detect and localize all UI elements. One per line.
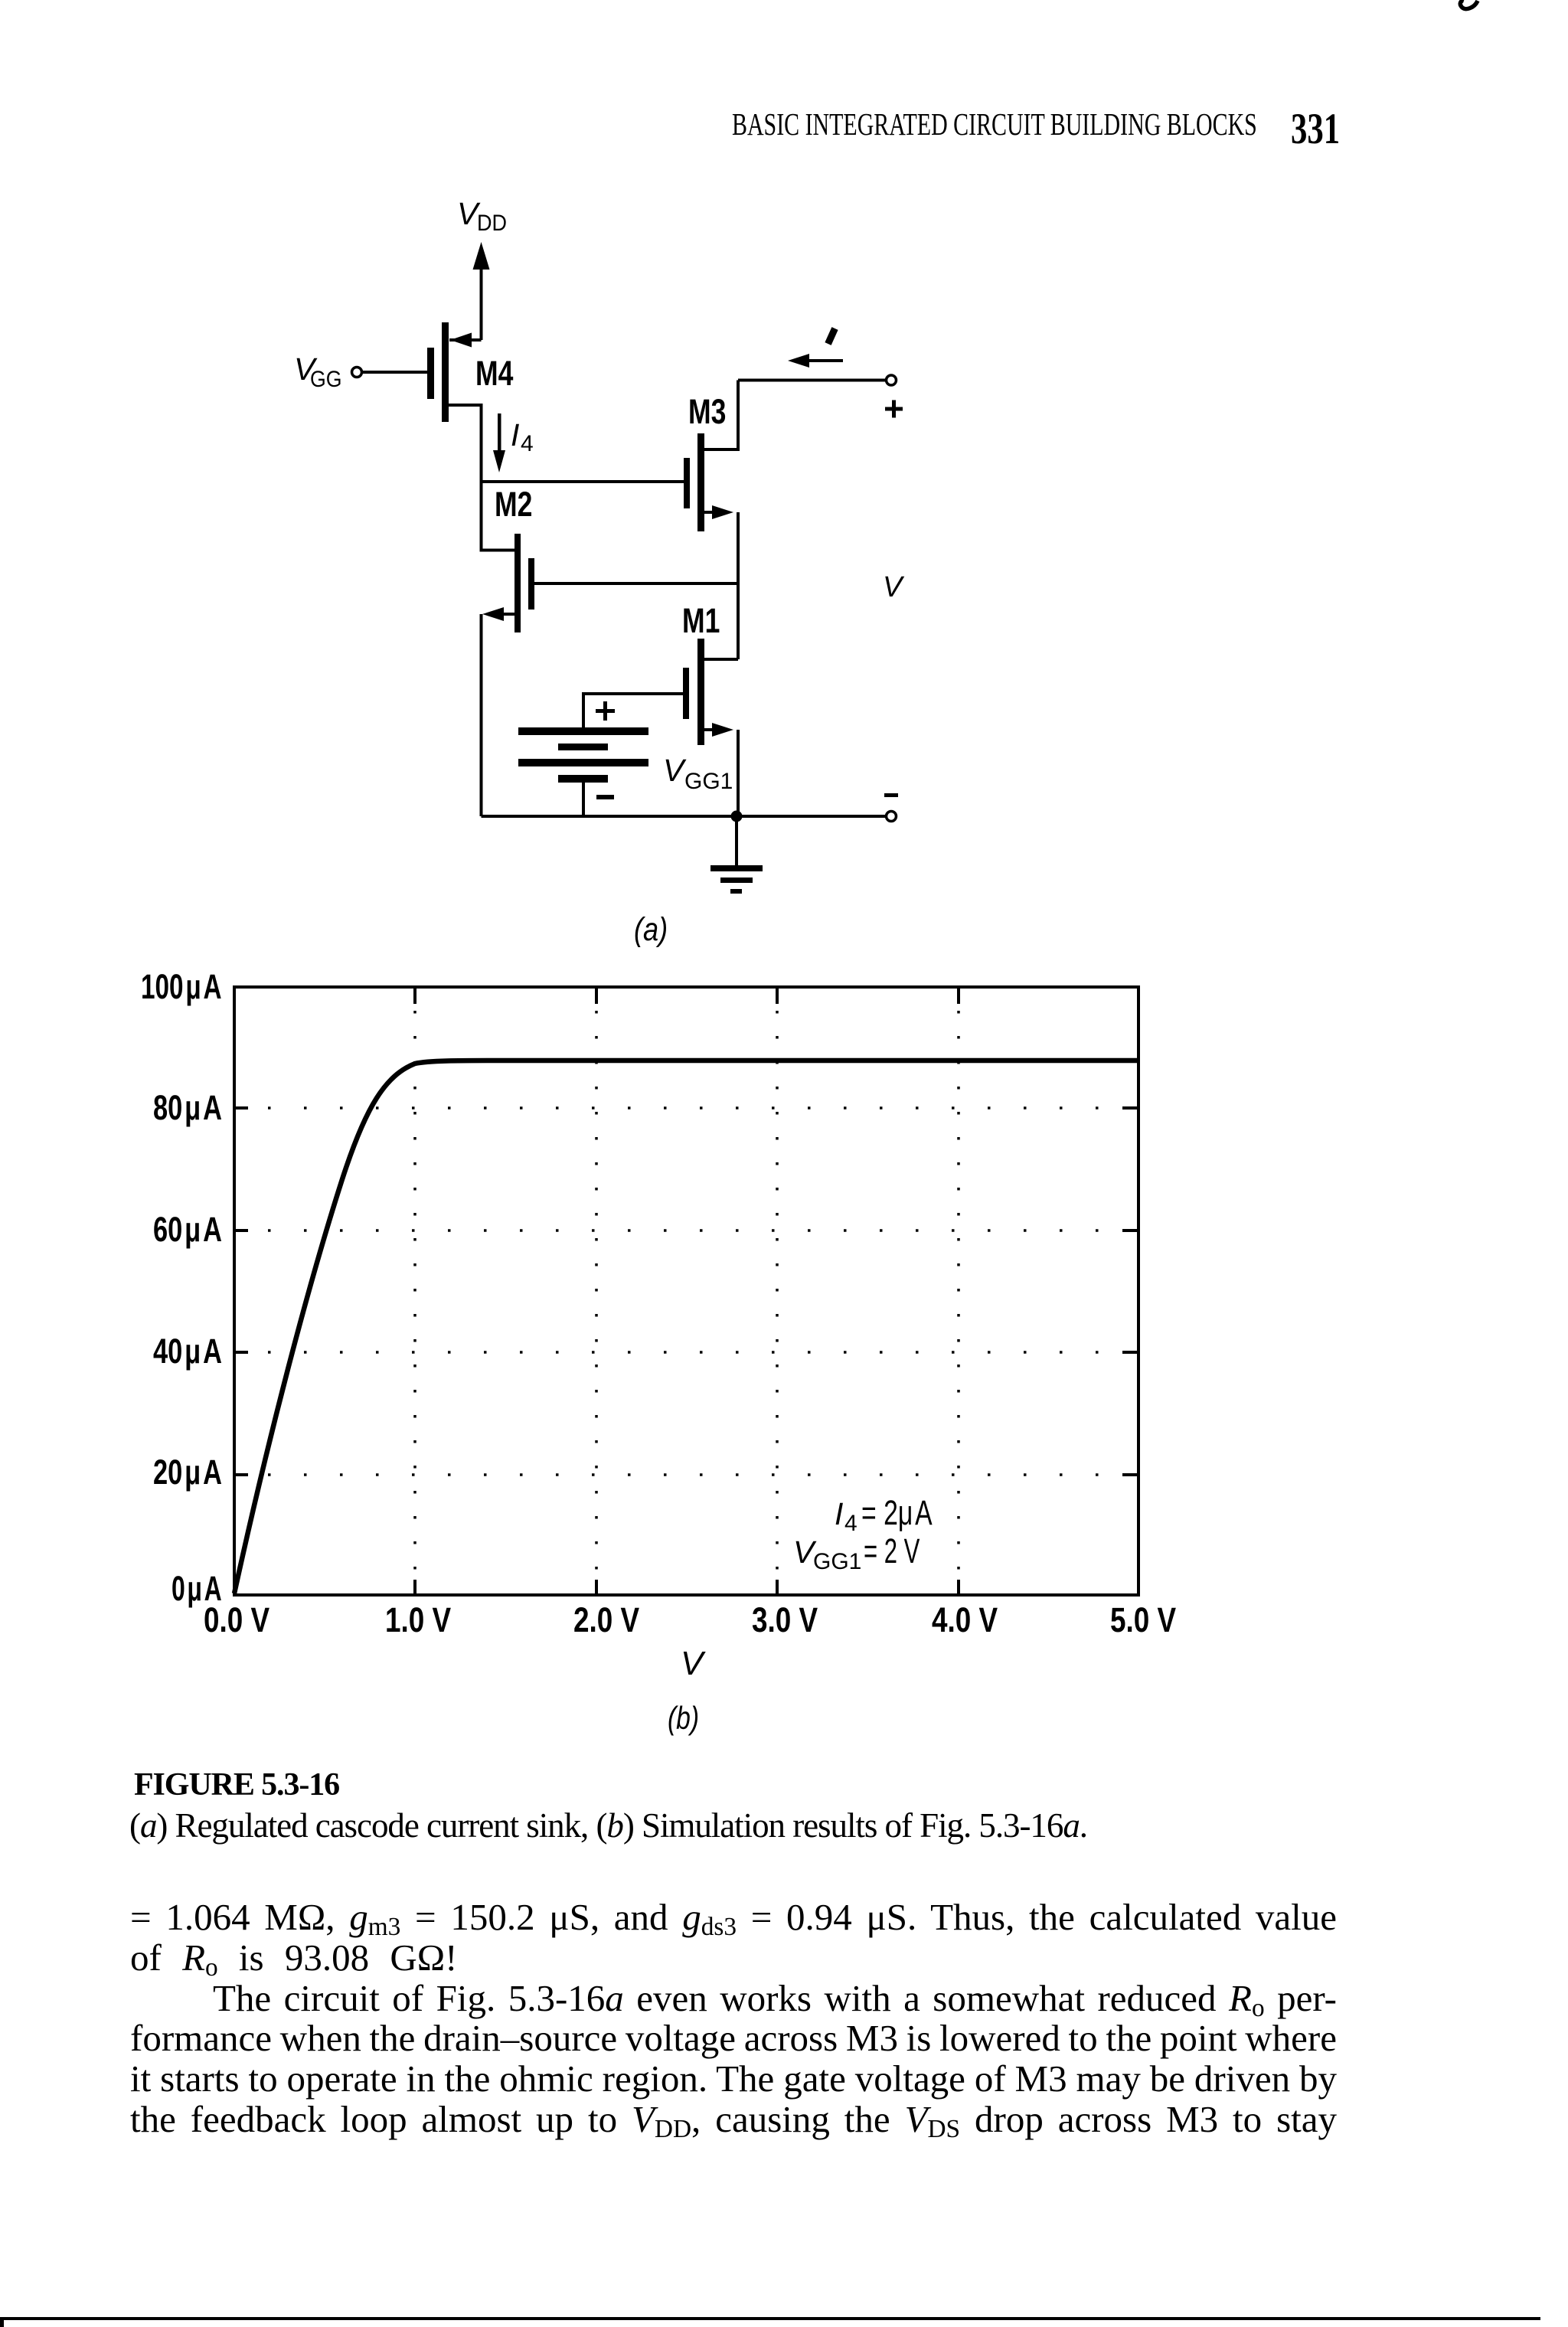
gridline horizontal 20uA	[268, 1473, 1122, 1476]
terminal output minus circle	[887, 812, 897, 822]
svg-text:20 μ A: 20 μ A	[153, 1454, 222, 1492]
gridline vertical 4.0V	[957, 1011, 960, 1579]
gridline horizontal 60uA	[268, 1229, 1122, 1232]
wire M1 gate	[583, 694, 683, 727]
M4 drain arrowhead	[450, 333, 472, 348]
svg-text:100 μ A: 100 μ A	[141, 968, 222, 1006]
battery minus sign	[596, 795, 614, 799]
svg-text:(a): (a)	[634, 911, 668, 948]
wire M1 drain	[704, 658, 738, 661]
gridline vertical 1.0V	[413, 1011, 416, 1579]
output plus sign	[885, 407, 903, 411]
svg-text:V: V	[681, 1645, 706, 1682]
gridline vertical 3.0V	[776, 1011, 779, 1579]
wire current arrow I shaft	[807, 359, 843, 362]
wire M4 source	[449, 405, 482, 482]
wire M2 gate to node B	[534, 582, 738, 585]
VDD arrowhead	[473, 242, 490, 270]
battery VGG1 plate 2	[558, 744, 608, 750]
wire M2 source stub	[501, 613, 514, 616]
wire node B vertical	[737, 512, 740, 659]
chart labels	[141, 968, 1177, 1737]
transistor M1 channel bar	[697, 639, 704, 745]
wire output top	[738, 379, 886, 382]
svg-text:M1: M1	[682, 601, 720, 640]
ground bar 3	[730, 889, 742, 894]
svg-text:DD: DD	[477, 211, 507, 237]
terminal output plus circle	[887, 375, 897, 385]
svg-text:80 μ A: 80 μ A	[153, 1090, 222, 1127]
svg-text:I: I	[835, 1496, 843, 1531]
wire M3 drain	[704, 381, 738, 450]
gridline horizontal 80uA	[268, 1106, 1122, 1110]
svg-text:V: V	[883, 571, 905, 603]
svg-text:BASIC INTEGRATED CIRCUIT BUILD: BASIC INTEGRATED CIRCUIT BUILDING BLOCKS	[732, 106, 1257, 142]
junction dot	[731, 811, 743, 822]
transistor M3 gate bar	[684, 458, 690, 508]
svg-text:5.0 V: 5.0 V	[1110, 1601, 1177, 1639]
transistor M2 gate bar	[528, 558, 534, 610]
transistor M3 channel bar	[697, 433, 704, 531]
battery VGG1 plate 4	[558, 775, 608, 783]
svg-text:M4: M4	[475, 354, 514, 393]
ground lead	[735, 816, 738, 865]
schematic labels	[294, 196, 905, 948]
svg-text:GG: GG	[310, 367, 342, 393]
bottom rule	[0, 2317, 1540, 2320]
svg-text:= 2μ A: = 2μ A	[861, 1494, 933, 1532]
svg-text:4.0 V: 4.0 V	[932, 1601, 998, 1639]
label I	[828, 328, 835, 344]
battery VGG1 plate 1	[518, 727, 648, 735]
wire M1 source stub	[704, 728, 714, 731]
bottom ticks	[413, 1580, 416, 1593]
svg-text:M2: M2	[495, 485, 532, 524]
svg-text:= 2 V: = 2 V	[864, 1532, 920, 1570]
ground bar 2	[720, 878, 753, 883]
svg-text:60 μ A: 60 μ A	[153, 1211, 222, 1249]
gridline vertical 2.0V	[595, 1011, 598, 1579]
svg-text:2.0 V: 2.0 V	[573, 1601, 640, 1639]
transistor M4 gate bar	[427, 348, 434, 399]
svg-text:0.0 V: 0.0 V	[204, 1601, 270, 1639]
wire M2 source to ground rail	[480, 614, 483, 816]
svg-text:40 μ A: 40 μ A	[153, 1333, 222, 1371]
svg-text:(b): (b)	[668, 1701, 699, 1737]
svg-text:GG1: GG1	[813, 1549, 861, 1574]
svg-text:3.0 V: 3.0 V	[752, 1601, 818, 1639]
battery plus sign	[596, 709, 615, 713]
ground bar 1	[710, 865, 763, 871]
transistor M4 channel bar	[442, 322, 449, 422]
wire VGG gate lead	[363, 371, 428, 374]
svg-text:4: 4	[521, 431, 534, 456]
chart frame	[234, 987, 1138, 1595]
left ticks	[236, 1106, 248, 1110]
wire M4 drain	[449, 338, 482, 342]
transistor M1 gate bar	[683, 668, 689, 719]
wire M1 source down	[737, 730, 740, 816]
M2 source arrowhead	[482, 607, 504, 621]
terminal VGG circle	[352, 368, 362, 377]
svg-text:331: 331	[1291, 104, 1340, 152]
svg-text:4: 4	[844, 1511, 857, 1536]
wire node A to M3 gate	[482, 480, 684, 483]
svg-text:V: V	[663, 753, 687, 788]
svg-text:M3: M3	[688, 392, 726, 431]
figure caption	[134, 1766, 339, 1803]
wire bottom rail	[482, 815, 887, 818]
wire VDD lead	[480, 266, 483, 340]
body paragraph	[130, 1897, 1337, 2140]
wire node A down to M2 drain	[482, 482, 515, 551]
battery VGG1 plate 3	[518, 759, 648, 766]
stray pen mark top right	[1460, 1, 1478, 9]
M3 source arrowhead	[712, 505, 733, 519]
svg-text:GG1: GG1	[684, 769, 733, 794]
top ticks	[413, 989, 416, 1004]
wire battery minus to rail	[582, 783, 585, 816]
M1 source arrowhead	[712, 723, 733, 737]
svg-text:I: I	[511, 417, 519, 453]
output minus dash	[884, 793, 898, 797]
wire M3 source stub	[704, 511, 714, 514]
transistor M2 channel bar	[514, 534, 521, 632]
right ticks	[1122, 1106, 1137, 1110]
output current arrowhead	[788, 354, 809, 368]
curve I vs V	[234, 1061, 1138, 1593]
svg-text:1.0 V: 1.0 V	[385, 1601, 452, 1639]
current arrow I4	[498, 413, 501, 452]
gridline horizontal 40uA	[268, 1351, 1122, 1354]
